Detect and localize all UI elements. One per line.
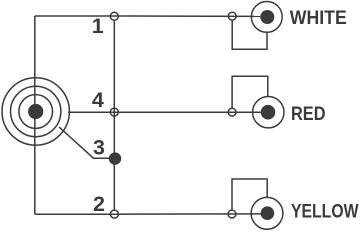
svg-text:4: 4 — [92, 88, 104, 112]
terminal circle YELLOW lead — [228, 210, 236, 218]
RCA connector barrel WHITE — [251, 2, 282, 33]
terminal circle RED lead — [228, 108, 236, 116]
wire: plug center vertical (tip/sleeve leads) — [34, 16, 36, 214]
wire: YELLOW RCA ground loop — [232, 179, 267, 210]
RCA connector barrel RED — [253, 97, 284, 128]
node 4 (open junction) — [110, 108, 118, 116]
terminal circle WHITE lead — [228, 12, 236, 20]
node 2 (open junction) — [110, 210, 118, 218]
wire: vertical bus (nodes 1-4-3-2) — [113, 20, 115, 210]
RCA center pin RED — [261, 105, 276, 120]
svg-text:3: 3 — [93, 136, 105, 160]
RCA connector barrel YELLOW — [251, 197, 283, 229]
node 1 (open junction) — [110, 12, 118, 20]
svg-text:WHITE: WHITE — [290, 7, 347, 29]
node 3 (solid junction) — [109, 152, 121, 164]
3.5mm plug J1 (end view) — [2, 78, 69, 145]
wire: node 4 to RED RCA center — [114, 111, 268, 113]
svg-text:2: 2 — [93, 192, 105, 216]
wire: node 2 to YELLOW RCA center — [114, 213, 267, 215]
wire: top run from plug to node 1 — [35, 15, 115, 17]
svg-text:RED: RED — [291, 103, 326, 125]
wire: bottom run from plug to node 2 — [35, 213, 115, 215]
RCA center pin YELLOW — [261, 206, 275, 220]
wire: plug ring 3 diagonal to node 3 — [59, 127, 115, 158]
wire: plug ring to node 4 — [68, 111, 114, 113]
svg-text:1: 1 — [92, 14, 104, 38]
wire: WHITE RCA ground loop — [232, 20, 267, 49]
RCA center pin WHITE — [260, 10, 274, 24]
wire: RED RCA ground loop — [232, 76, 268, 108]
wire: node 1 to WHITE RCA center — [114, 15, 267, 17]
svg-text:YELLOW: YELLOW — [291, 200, 359, 222]
